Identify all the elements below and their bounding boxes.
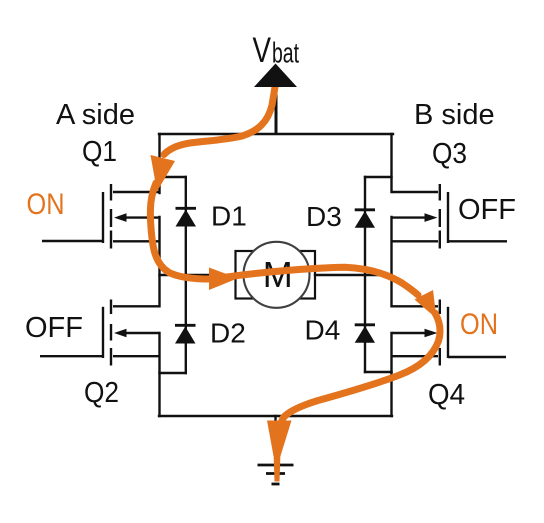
svg-text:bat: bat (272, 38, 299, 70)
svg-text:ON: ON (27, 188, 65, 221)
svg-text:B side: B side (414, 99, 495, 131)
svg-text:Q2: Q2 (84, 377, 119, 409)
svg-text:Q4: Q4 (428, 379, 465, 411)
svg-text:V: V (253, 30, 272, 70)
svg-text:OFF: OFF (25, 312, 83, 344)
svg-text:D1: D1 (211, 201, 247, 232)
svg-text:OFF: OFF (458, 194, 516, 226)
svg-text:D2: D2 (210, 318, 246, 349)
svg-text:Q3: Q3 (432, 138, 467, 170)
svg-text:D3: D3 (306, 201, 342, 232)
svg-text:ON: ON (460, 308, 498, 341)
svg-text:D4: D4 (305, 315, 341, 346)
svg-text:Q1: Q1 (82, 136, 117, 168)
svg-text:A side: A side (56, 99, 135, 131)
